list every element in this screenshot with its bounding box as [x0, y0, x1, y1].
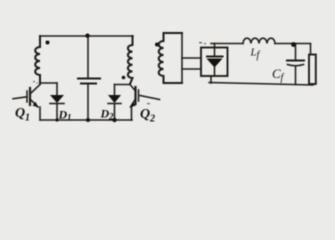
- svg-text:1: 1: [25, 113, 30, 124]
- svg-text:1: 1: [67, 112, 72, 122]
- svg-text:f: f: [257, 50, 261, 61]
- svg-text:2: 2: [149, 114, 155, 125]
- svg-text:Q: Q: [15, 106, 25, 121]
- svg-text:f: f: [281, 73, 285, 84]
- svg-text:2: 2: [108, 112, 114, 122]
- svg-text:Q: Q: [140, 107, 150, 122]
- svg-text:D: D: [100, 107, 110, 121]
- svg-text:D: D: [58, 107, 68, 121]
